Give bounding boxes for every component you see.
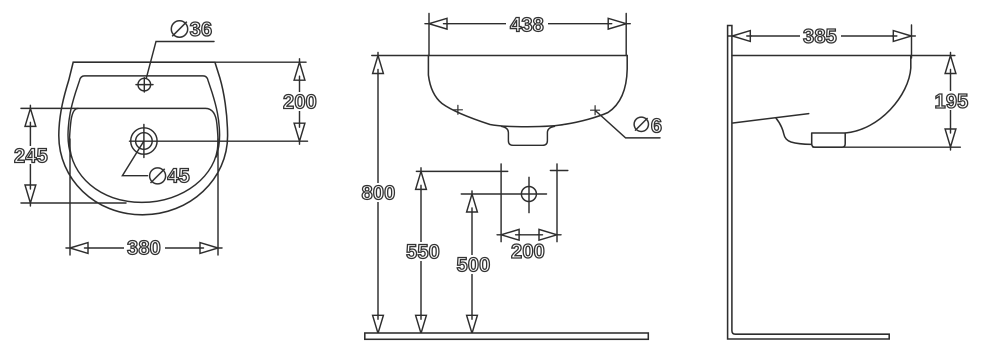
- rim underside slant line: [733, 114, 809, 123]
- svg-text:800: 800: [362, 182, 396, 204]
- dim 385 line: [728, 35, 915, 37]
- dim 438 left arrow: [429, 18, 447, 29]
- dim 195 down arrow: [945, 129, 956, 147]
- dim 550 shaft tips: [420, 185, 422, 319]
- drain horizontal crosshair / 200 bottom extension line: [130, 140, 308, 142]
- drain tab side view: [812, 133, 846, 147]
- basin outer rim outline: [59, 62, 228, 215]
- leader line for dia6: [596, 111, 660, 138]
- dim 200 left-view down arrow: [294, 123, 305, 141]
- tick on right extension line: [550, 170, 567, 172]
- dim 200 left-view shaft tips: [299, 76, 301, 127]
- svg-text:438: 438: [510, 15, 544, 37]
- basin inner rim line: [68, 76, 220, 157]
- dim 200 mid left extension line: [500, 164, 502, 242]
- dim 245 line: [29, 105, 31, 206]
- basin front outline: [428, 56, 627, 127]
- svg-text:380: 380: [127, 238, 161, 260]
- dim 550 top extension line: [416, 170, 507, 172]
- text mask rects: [506, 16, 548, 33]
- bowl front underside curve: [776, 118, 811, 144]
- basin right profile curve: [845, 56, 911, 134]
- svg-text:6: 6: [651, 115, 662, 137]
- dim 385 right extension line: [911, 25, 913, 58]
- dim 500 line: [471, 191, 473, 333]
- dim 385 shaft tips: [747, 35, 897, 37]
- dim 380 shaft tips: [85, 247, 204, 249]
- svg-text:45: 45: [167, 166, 190, 188]
- dim 500 up arrow: [467, 194, 478, 212]
- dim 200 left-view top extension line: [215, 61, 306, 63]
- bowl inner outline with chord: [70, 108, 218, 202]
- dim 200 mid line: [497, 234, 561, 236]
- dia symbol for 36: [171, 21, 187, 37]
- dim 385 left arrow: [732, 31, 750, 42]
- basin top line side view with 195 extension: [732, 55, 955, 57]
- wall and floor L-profile: [728, 26, 890, 340]
- floor bar front view: [365, 333, 649, 339]
- dim 550 line: [420, 168, 422, 333]
- drain outer circle: [131, 128, 157, 154]
- dim 438 shaft tips: [444, 23, 612, 25]
- svg-text:200: 200: [283, 92, 317, 114]
- leader line for dia36: [146, 42, 214, 78]
- dim 800 shaft tips: [377, 70, 379, 320]
- drain tab front view: [502, 126, 555, 145]
- dim 550 down arrow: [416, 315, 427, 333]
- dim 438 right extension line: [625, 14, 627, 56]
- dim 245 bottom extension line: [21, 202, 126, 204]
- dim 195 line: [950, 53, 952, 151]
- dim 800 down arrow: [373, 315, 384, 333]
- drain hole vertical crosshair front view: [528, 177, 530, 212]
- dim 380 right extension line: [217, 139, 219, 255]
- dia symbol for 6: [634, 117, 648, 131]
- dim 200 mid left arrow: [501, 229, 519, 240]
- dim 200 mid right extension line: [556, 164, 558, 242]
- dim 200 mid right arrow: [539, 229, 557, 240]
- dim 500 shaft tips: [471, 208, 473, 319]
- dim 245 down arrow: [25, 185, 36, 203]
- dim 438 left extension line: [428, 14, 430, 56]
- right plus mark: [591, 106, 600, 115]
- drain hole circle front view: [521, 187, 536, 202]
- dim 800 line: [377, 53, 379, 334]
- dim 245 top extension line (chord extension): [21, 107, 78, 109]
- svg-text:36: 36: [190, 19, 213, 41]
- left plus mark: [453, 105, 462, 114]
- dim 195 bottom extension line: [813, 146, 960, 148]
- dim 380 right arrow: [200, 243, 218, 254]
- dia symbol for 45: [150, 168, 166, 184]
- faucet hole crosshair: [136, 78, 153, 92]
- dim 195 shaft tips: [950, 70, 952, 134]
- faucet hole circle: [138, 78, 151, 91]
- dim 550 up arrow: [416, 171, 427, 189]
- dim 500 down arrow: [467, 315, 478, 333]
- dim 500 top extension line: [461, 193, 546, 195]
- drain inner circle: [136, 133, 153, 150]
- dim 380 left arrow: [70, 243, 88, 254]
- dim 245 shaft tips: [29, 122, 31, 189]
- drain vertical crosshair: [143, 125, 145, 158]
- dim 245 up arrow: [25, 108, 36, 126]
- svg-text:385: 385: [803, 26, 837, 48]
- svg-text:500: 500: [457, 254, 491, 276]
- dim 800 up arrow: [373, 56, 384, 74]
- dim 385 right arrow: [893, 31, 911, 42]
- dim 380 left extension line: [69, 139, 71, 255]
- dim 380 line: [66, 247, 222, 249]
- svg-text:245: 245: [14, 146, 48, 168]
- dim 195 up arrow: [945, 56, 956, 74]
- dim 800 top extension line: [372, 55, 429, 57]
- dim 200 mid shaft tips: [516, 234, 543, 236]
- dim 438 line: [425, 23, 630, 25]
- svg-text:200: 200: [511, 241, 545, 263]
- svg-text:195: 195: [935, 91, 969, 113]
- leader line for dia45: [122, 141, 147, 176]
- dim 438 right arrow: [608, 18, 626, 29]
- dim 200 left-view up arrow: [294, 62, 305, 80]
- svg-text:550: 550: [406, 241, 440, 263]
- dim 200 left-view line: [299, 59, 301, 144]
